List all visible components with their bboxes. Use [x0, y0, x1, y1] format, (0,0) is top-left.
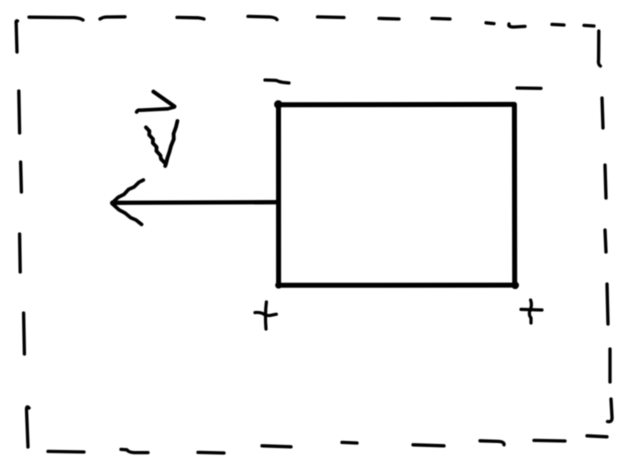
dashed boundary: bottom segment 8	[534, 439, 565, 443]
dashed boundary: top segment 3	[177, 17, 204, 19]
velocity arrow tip dot	[110, 200, 115, 205]
dashed boundary: right segment 5	[607, 284, 608, 324]
block (rectangle)	[279, 104, 515, 285]
dashed boundary: top segment 4	[248, 16, 277, 19]
dashed boundary: left segment 4	[18, 234, 22, 272]
dashed boundary: top segment 1	[29, 17, 83, 20]
dashed boundary: bottom segment 1	[48, 450, 84, 454]
vector arrow over v: shaft	[137, 107, 175, 112]
velocity arrow shaft	[115, 200, 278, 205]
dashed boundary: left segment 3	[19, 162, 23, 192]
block corner dot bottom-left	[275, 282, 282, 289]
dashed boundary: right segment 4	[605, 230, 606, 252]
dashed boundary: top segment 11	[584, 24, 594, 28]
block corner dot bottom-right	[511, 282, 519, 290]
dashed boundary: top segment 10	[552, 23, 564, 27]
dashed boundary: bottom segment 2	[121, 449, 148, 452]
plus sign below block bottom-left: horizontal stroke	[255, 312, 276, 315]
label v: right stroke	[165, 121, 177, 166]
dashed boundary: right segment 6	[608, 349, 611, 382]
dashed boundary: top segment 6	[379, 17, 399, 21]
vector arrow over v: diagonal barb	[153, 92, 174, 107]
dashed boundary: left segment 5	[22, 313, 26, 354]
dashed boundary: top segment 2	[100, 17, 125, 19]
minus sign above block top-left	[265, 80, 289, 83]
dashed boundary: right segment 1	[598, 31, 600, 66]
dashed boundary: top segment 8	[486, 21, 494, 25]
dashed boundary: bottom segment 4	[262, 446, 291, 447]
dashed boundary: top segment 9	[509, 24, 525, 27]
dashed boundary: left segment 1	[16, 21, 17, 52]
dashed boundary: top segment 5	[318, 15, 345, 19]
velocity arrow upper barb	[113, 180, 144, 203]
block corner dot top-left	[274, 100, 282, 108]
plus sign below block bottom-left: vertical stroke	[264, 302, 268, 329]
dashed boundary: bottom segment 7	[480, 441, 504, 445]
dashed boundary: top segment 7	[432, 17, 450, 21]
plus sign below block bottom-right: horizontal stroke	[521, 308, 542, 312]
label v: left stroke	[146, 127, 166, 163]
velocity arrow lower barb	[113, 204, 142, 224]
dashed boundary: left segment 2	[17, 91, 21, 133]
dashed boundary: right segment 7	[608, 399, 613, 422]
dashed boundary: bottom segment 3	[198, 451, 224, 455]
minus sign above block top-right	[517, 86, 541, 90]
plus sign below block bottom-right: vertical stroke	[529, 300, 531, 323]
dashed boundary: left segment 6	[27, 407, 30, 447]
dashed boundary: right segment 3	[605, 165, 606, 198]
dashed boundary: bottom segment 9	[587, 436, 607, 437]
dashed boundary: right segment 2	[602, 98, 603, 128]
dashed boundary: bottom segment 6	[413, 445, 444, 446]
dashed boundary: bottom segment 5	[342, 441, 357, 445]
